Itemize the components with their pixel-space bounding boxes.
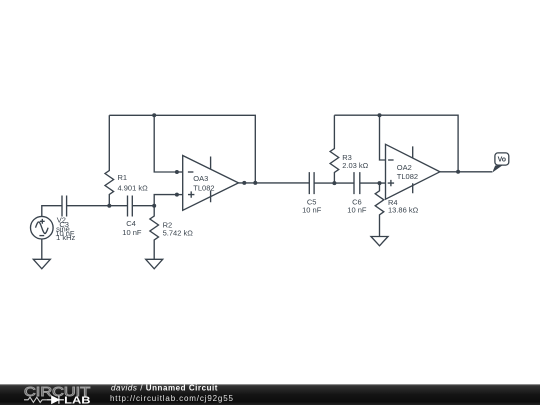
capacitor C3 <box>62 196 67 217</box>
logo diode <box>47 396 64 404</box>
node OA3 -input <box>175 170 179 174</box>
labels R4 <box>388 198 419 214</box>
svg-text:2.03 kΩ: 2.03 kΩ <box>342 161 368 170</box>
wire rail to -input <box>154 115 177 172</box>
labels R1 <box>118 173 149 192</box>
wire V2 to main <box>42 206 62 217</box>
svg-text:TL082: TL082 <box>193 184 214 193</box>
capacitor C5 <box>309 172 314 194</box>
svg-text:davids / Unnamed Circuit: davids / Unnamed Circuit <box>111 383 218 392</box>
node output/feedback <box>456 170 460 174</box>
net flag Vo <box>492 153 509 173</box>
node rail1 tap <box>152 113 156 117</box>
wire C4 to node <box>132 205 154 207</box>
voltage source V2 <box>31 216 54 239</box>
op-amp OA2 <box>386 144 440 199</box>
node R3 bottom <box>332 181 336 185</box>
resistor R1 <box>105 115 114 205</box>
wire feedback rail 1 <box>109 115 255 183</box>
svg-text:5.742 kΩ: 5.742 kΩ <box>163 228 194 237</box>
resistor R2 <box>150 206 159 260</box>
svg-text:R1: R1 <box>118 173 128 182</box>
labels C4 <box>122 219 142 237</box>
resistor R3 <box>330 115 339 183</box>
svg-text:OA2: OA2 <box>397 163 412 172</box>
resistor R4 <box>375 183 384 236</box>
svg-text:OA3: OA3 <box>193 174 208 183</box>
capacitor C6 <box>354 172 360 194</box>
labels C5 <box>302 197 322 214</box>
wire stub +input <box>177 194 183 196</box>
node OA2 +input <box>378 181 382 185</box>
wire V2 to ground <box>41 239 43 259</box>
wire stub -input <box>177 171 183 173</box>
labels R3 <box>342 153 368 170</box>
svg-text:C4: C4 <box>126 219 136 228</box>
node R1 bottom junction <box>107 204 111 208</box>
wire C6 to OA2 <box>360 182 386 184</box>
op-amp OA3 <box>183 156 239 211</box>
svg-text:10 nF: 10 nF <box>302 206 322 215</box>
node output stub <box>242 181 246 185</box>
node feedback join <box>253 181 257 185</box>
wire rail2 to -input <box>380 115 386 160</box>
logo resistor zigzag <box>24 397 47 402</box>
wire feedback rail 2 <box>334 115 458 172</box>
node rail2 tap <box>378 113 382 117</box>
wire C3 to C4 <box>67 205 128 207</box>
labels C6 <box>347 197 367 214</box>
node OA3 +input <box>175 193 179 197</box>
wire to OA3 +input <box>154 195 177 206</box>
svg-text:C3: C3 <box>59 220 69 229</box>
svg-text:http://circuitlab.com/cj92g55: http://circuitlab.com/cj92g55 <box>110 394 234 403</box>
labels R2 <box>163 220 194 237</box>
ground (R2) <box>146 259 163 269</box>
node C4/R2 junction <box>152 204 156 208</box>
svg-text:10 nF: 10 nF <box>347 206 367 215</box>
svg-text:13.86 kΩ: 13.86 kΩ <box>388 205 419 214</box>
labels V2 <box>56 215 75 242</box>
wire C5 to C6 <box>314 182 354 184</box>
wire OA2 output <box>440 171 492 173</box>
svg-text:TL082: TL082 <box>397 172 418 181</box>
svg-text:LAB: LAB <box>64 395 91 405</box>
svg-text:4.901 kΩ: 4.901 kΩ <box>118 183 149 192</box>
footer bar <box>0 384 540 405</box>
labels C3 <box>55 220 75 238</box>
svg-text:Vo: Vo <box>498 157 506 164</box>
ground (R4) <box>371 237 388 246</box>
svg-text:10 nF: 10 nF <box>55 229 75 238</box>
ground (V2) <box>33 259 50 269</box>
svg-text:10 nF: 10 nF <box>122 228 142 237</box>
wire OA3 output <box>239 182 310 184</box>
capacitor C4 <box>128 196 133 217</box>
